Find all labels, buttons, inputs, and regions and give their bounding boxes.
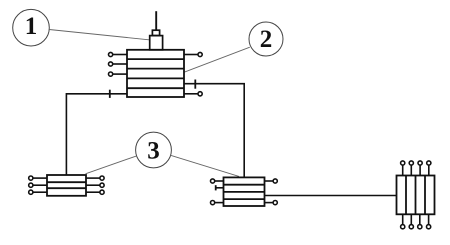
X2 right pin 1 (265, 179, 278, 183)
XP1 top pin 4 (427, 161, 431, 176)
callout circle 3 (136, 132, 172, 168)
svg-text:1: 1 (25, 13, 38, 40)
terminal block X2 body (4-section box) (224, 177, 265, 206)
module A1 right pin 1 (184, 52, 202, 56)
callout circle 1 (13, 9, 50, 46)
module A1 left pin 2 (109, 62, 128, 66)
wire from module A1 row4 right to terminal block X2 (184, 84, 244, 178)
X2 right pin 4 (265, 201, 278, 205)
XP1 top pin 2 (409, 161, 413, 176)
wire from module A1 row5 left to terminal block X1 (66, 94, 127, 175)
X1 right pin 3 (86, 190, 104, 194)
leader line from callout 1 to antenna connector (49, 30, 149, 40)
leader line from callout 2 to module A1 right edge (185, 47, 250, 72)
antenna connector on module A1 (150, 30, 163, 50)
module A1 body (5-section box) (127, 50, 184, 97)
module A1 right pin 5 (184, 92, 202, 96)
antenna whip line (155, 11, 157, 29)
XP1 top pin 3 (418, 161, 422, 176)
XP1 bottom pin 3 (418, 214, 422, 228)
X1 left pin 2 (29, 183, 47, 187)
X2 left stub with tick (pin 2) (216, 185, 224, 190)
XP1 top pin 1 (401, 161, 405, 176)
X1 right pin 1 (86, 176, 104, 180)
leader line from callout 3 to terminal block X1 (86, 156, 137, 174)
module A1 left pin 1 (109, 52, 128, 56)
X1 left pin 1 (29, 176, 47, 180)
module A1 left pin 3 (109, 72, 128, 76)
callout circle 2 (249, 22, 283, 56)
svg-text:2: 2 (260, 26, 273, 53)
tick mark on right wire (194, 80, 196, 89)
wire from X2 row3 to connector XP1 (265, 195, 397, 197)
tick mark on left wire (109, 90, 111, 98)
leader line from callout 3 to terminal block X2 (171, 155, 239, 176)
XP1 bottom pin 1 (401, 214, 405, 228)
X2 left pin 4 (211, 201, 224, 205)
X1 right pin 2 (86, 183, 104, 187)
XP1 bottom pin 4 (427, 214, 431, 228)
terminal block X1 body (3-section box) (47, 175, 86, 196)
connector XP1 body (4-column box) (397, 176, 435, 215)
svg-text:3: 3 (147, 138, 160, 165)
XP1 bottom pin 2 (409, 214, 413, 228)
X2 left pin 1 (211, 179, 224, 183)
X1 left pin 3 (29, 190, 47, 194)
